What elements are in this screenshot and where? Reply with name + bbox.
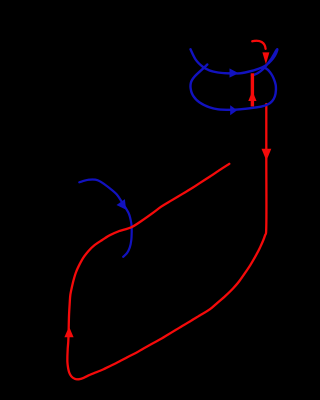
field line arc (blue, left, circling the wire) bbox=[79, 179, 131, 256]
B-field arrow inside coil (red, thick, pointing up) bbox=[251, 73, 254, 106]
arrowhead on coil turn 1 bbox=[230, 68, 239, 77]
curved arrow at top (red, field line hooking down into coil) bbox=[252, 41, 265, 49]
current arrow up on left wire segment bbox=[64, 327, 73, 338]
arrowhead of curved arrow bbox=[262, 52, 269, 64]
arrowhead on left field arc bbox=[117, 199, 127, 210]
coil (blue, two-turn spiral around the wire) bbox=[190, 49, 277, 110]
arrowhead on coil turn 2 bbox=[230, 105, 237, 115]
current arrow down on right wire segment bbox=[262, 149, 272, 161]
wire loop (red, current path) bbox=[67, 104, 266, 379]
